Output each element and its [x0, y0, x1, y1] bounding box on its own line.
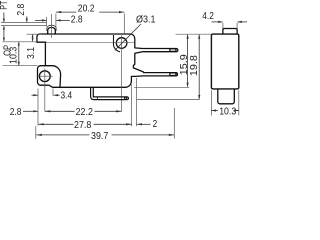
cover step edge [37, 41, 46, 43]
mounting hole top-right [116, 38, 127, 49]
body top extension line left [27, 33, 41, 35]
dim line 39.7 [36, 134, 89, 136]
common terminal slot tick [96, 97, 98, 100]
dim line PT [3, 13, 5, 23]
svg-text:2.8: 2.8 [10, 107, 22, 118]
end view body [211, 34, 238, 89]
svg-text:3.1: 3.1 [26, 47, 37, 59]
dim 20.2 extension right [123, 14, 125, 34]
ext step x136.5 [136, 78, 138, 126]
dim free-position reference line [1, 24, 47, 26]
blade terminal 1 slot [170, 49, 176, 52]
end view base block [218, 89, 235, 104]
dim OP reference line [3, 41, 37, 43]
svg-text:19.8: 19.8 [189, 55, 200, 76]
svg-text:10.3: 10.3 [9, 46, 20, 64]
dim line 2.8 left [26, 16, 28, 22]
blade terminal 2 slot [170, 73, 176, 76]
plunger free position outline [47, 25, 56, 31]
cover left edge top-left corner [37, 34, 40, 42]
dim 2.8 top extension left [46, 17, 48, 27]
dim line 19.8 [198, 35, 200, 100]
dim 2 right arrow [137, 123, 151, 125]
plunger centerline [51, 14, 53, 38]
leader line dia3.1 [115, 24, 141, 50]
svg-text:3.4: 3.4 [61, 91, 73, 102]
hole BL crosshair horizontal [37, 75, 52, 77]
dim 4.2 arrows [212, 21, 223, 23]
dim 15.9 extension bottom [134, 86, 189, 88]
dim line 10.3 [18, 42, 20, 65]
ext blade tips x174.3 [173, 108, 175, 139]
svg-text:2.8: 2.8 [71, 14, 83, 25]
dim 2.8 top arrows [35, 19, 46, 21]
dim 3.4 arrows [32, 94, 38, 96]
hole TR crosshair vertical + 22.2 extension [121, 35, 123, 111]
svg-text:22.2: 22.2 [76, 107, 94, 118]
svg-text:4.2: 4.2 [202, 11, 214, 22]
svg-text:39.7: 39.7 [91, 131, 109, 141]
ext 3.4 right x51.6 [52, 89, 54, 96]
dim 2.8 bottom arrows (row shared with 22.2) [23, 110, 38, 112]
dim line 15.9 [187, 35, 189, 87]
hole TR lobe inner arc [114, 35, 121, 52]
svg-text:20.2: 20.2 [78, 4, 95, 15]
mounting hole bottom-left [39, 71, 50, 82]
dim line OP (arrows both ends) [3, 26, 5, 41]
plunger button (pressed, solid) [48, 27, 56, 34]
ext 39.7 left x35.8 [35, 126, 37, 139]
dim PT reference line upper [1, 22, 47, 24]
svg-text:2.8: 2.8 [16, 3, 27, 15]
mounting plane extension line [3, 65, 38, 67]
body seam line through hole TR [46, 42, 135, 44]
ext body lower-right x131.6 [131, 85, 133, 127]
svg-text:PT: PT [0, 1, 10, 10]
dim line 3.1 [32, 35, 34, 42]
dim 19.8 extension bottom [137, 99, 200, 101]
common terminal end slot [124, 97, 126, 99]
hole BL crosshair vertical + 22.2 extension [44, 69, 46, 112]
svg-text:10.3: 10.3 [219, 107, 236, 118]
svg-text:2: 2 [153, 119, 158, 130]
dim line 27.8 [39, 123, 74, 125]
dim 20.2 extension left [55, 14, 57, 29]
end view plunger [223, 29, 237, 35]
ext lobe left x38 [37, 89, 39, 126]
svg-text:Ø3.1: Ø3.1 [136, 14, 156, 25]
dim line 22.2 [45, 110, 75, 112]
main view body outline with blade terminals [38, 34, 178, 87]
dim 10.3 bottom extension lines [210, 90, 212, 115]
svg-text:27.8: 27.8 [74, 120, 92, 131]
dim line 20.2 [56, 11, 76, 13]
dim 15.9 extension top (end view top extended left) [176, 33, 212, 35]
body base left edge [44, 42, 46, 65]
common terminal strip below body [91, 88, 129, 100]
dim line 10.3 bottom [211, 110, 218, 112]
dim 4.2 extension lines [222, 23, 224, 29]
